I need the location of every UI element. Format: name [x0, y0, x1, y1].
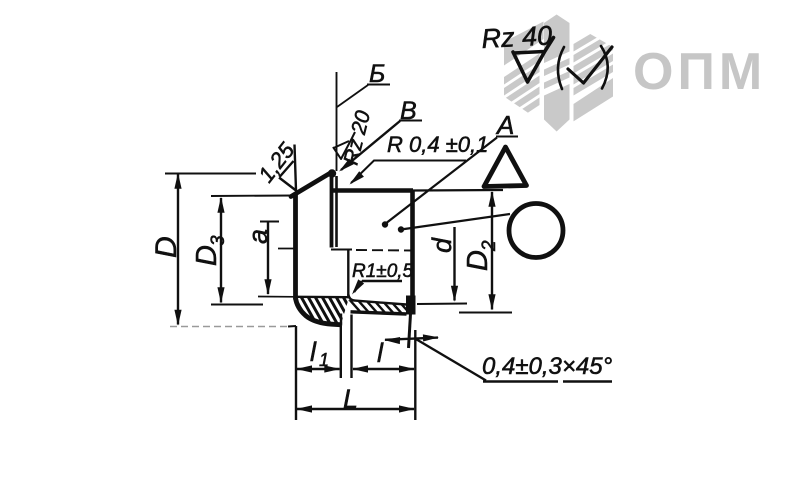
section: flange right face bottom: [340, 314, 342, 326]
section: bore line with R1 fillet: [348, 294, 406, 305]
extension for body top to triangle: [413, 189, 503, 192]
bottom extension line left: [295, 326, 297, 420]
svg-text:L: L: [343, 384, 358, 414]
leader from B to extension line: [337, 85, 368, 107]
svg-text:ОПМ: ОПМ: [633, 43, 766, 101]
svg-text:D: D: [150, 236, 183, 258]
Rz20 check symbol: [333, 132, 355, 159]
watermark logo hexagon emblem: [504, 13, 613, 130]
part outline: right face: [410, 191, 415, 299]
svg-text:1: 1: [319, 350, 329, 370]
dimension D: extension bottom (faint): [170, 326, 290, 328]
section: counterbore surface line: [297, 296, 349, 299]
dimension a: top tick: [260, 221, 279, 223]
bottom extension line right: [414, 330, 416, 420]
extension line above knurl: [336, 72, 338, 171]
shelf and leader of R0,4 with arrow: [351, 161, 466, 184]
svg-text:R1±0,5: R1±0,5: [352, 261, 414, 282]
NW solid band: [504, 13, 544, 66]
dimension D: extension top: [165, 173, 256, 175]
axis centerline: [331, 249, 352, 251]
knurl corner blob: [328, 169, 336, 177]
part outline: left face: [293, 193, 298, 300]
bottom extension line l start: [350, 315, 352, 379]
section: right end wall dark fill: [406, 296, 416, 315]
chamfer double arrow: [385, 338, 438, 340]
svg-text:d: d: [427, 237, 457, 253]
dimension a: extension bottom: [258, 296, 295, 298]
svg-text:0,4±0,3×45°: 0,4±0,3×45°: [482, 353, 613, 380]
watermark logo central column: [544, 15, 570, 132]
part outline: body top edge: [333, 188, 413, 193]
leader from circle to surface dot: [401, 214, 510, 230]
svg-text:D: D: [191, 245, 223, 266]
leader from A to surface dot: [385, 138, 497, 225]
parenthesis right of (v): [601, 46, 608, 89]
dimension D2: line and arrows: [491, 192, 493, 310]
svg-text:R 0,4 ±0,1: R 0,4 ±0,1: [387, 132, 488, 157]
axis stub left of part: [278, 248, 296, 250]
part outline: flange bottom curve (section): [296, 298, 343, 325]
svg-text:a: a: [243, 229, 273, 244]
dimension D2: label: [462, 240, 500, 271]
dimension a: line and arrow: [267, 222, 269, 294]
1,25 check symbol: [279, 145, 296, 191]
right face lower overshoot: [409, 314, 411, 348]
dimension l1: line and arrows: [297, 368, 340, 370]
hatching flange: [292, 293, 360, 327]
bottom extension line l1/l boundary: [340, 326, 342, 378]
check inside parens: [568, 47, 612, 83]
dimension D: line and arrows: [177, 174, 179, 325]
dimension D3: label: [191, 235, 229, 266]
svg-text:3: 3: [208, 235, 229, 246]
roughness check symbol: [513, 38, 554, 83]
svg-text:D: D: [462, 250, 494, 271]
knurl groove line 1: [330, 172, 334, 248]
dimension D2: extension bottom: [459, 312, 512, 314]
NE stripes: [574, 65, 614, 96]
hatching body strip: [348, 298, 412, 316]
knurl groove line 2: [335, 176, 338, 247]
dimension d: line and arrow: [453, 227, 455, 301]
dimension D3: line and arrows: [220, 198, 222, 303]
svg-text:l: l: [310, 337, 317, 367]
svg-text:l: l: [377, 338, 384, 368]
SE solid band: [574, 78, 614, 130]
svg-text:2: 2: [479, 240, 500, 252]
leader R1 with arrow: [354, 281, 362, 292]
section: body bottom edge: [351, 312, 407, 314]
dimension D3: extension bottom: [211, 304, 263, 306]
dimension l: line and arrows: [353, 368, 414, 370]
svg-text:Rz 40: Rz 40: [481, 20, 553, 54]
SW stripes: [504, 54, 540, 85]
watermark logo white slits on column: [543, 51, 571, 96]
dimension d: extension bottom: [417, 303, 467, 306]
parenthesis left of (v): [558, 47, 564, 89]
leader from V with arrow: [341, 121, 400, 170]
part outline: flange top slant (knurl surface): [291, 172, 332, 197]
svg-text:Rz 20: Rz 20: [340, 108, 376, 167]
chamfer leader: [415, 339, 486, 381]
dimension L: line and arrows: [297, 408, 414, 410]
inspection circle symbol: [509, 204, 563, 258]
dimension D3: extension top: [211, 195, 294, 198]
datum triangle A: [484, 147, 527, 187]
section: counterbore right wall: [347, 251, 349, 298]
